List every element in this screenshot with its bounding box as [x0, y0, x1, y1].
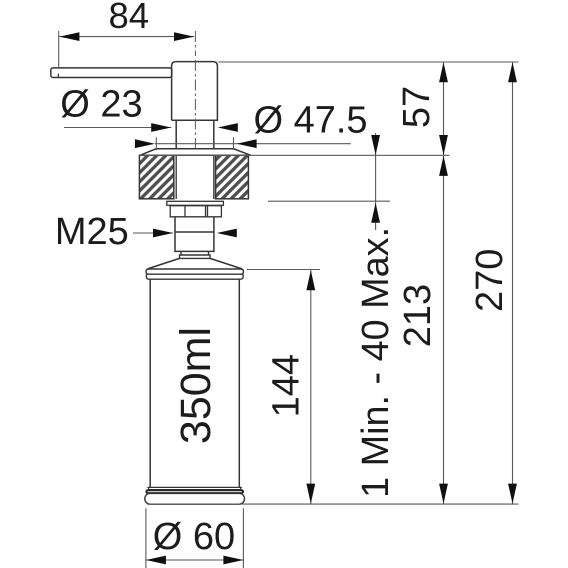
svg-text:144: 144	[265, 354, 307, 417]
dim 84 arrow right	[174, 32, 194, 41]
bottom reference line	[147, 503, 519, 505]
dim 213 line	[443, 156, 445, 504]
neck	[176, 120, 214, 149]
hex nut	[170, 206, 221, 217]
dim D60 arrow right	[223, 556, 243, 565]
svg-text:1 Min. - 40 Max.: 1 Min. - 40 Max.	[355, 227, 397, 498]
collar	[180, 251, 211, 258]
countertop slab right	[216, 155, 249, 199]
dim 144 arrow down	[306, 484, 315, 504]
bottle top rim	[146, 269, 244, 279]
svg-text:57: 57	[396, 86, 438, 128]
dim D60 line	[146, 559, 244, 561]
nut-top extension line	[268, 200, 390, 202]
svg-text:M25: M25	[55, 211, 129, 253]
bottle body	[150, 279, 239, 486]
svg-text:270: 270	[469, 249, 511, 312]
dim 84 arrow left	[59, 32, 79, 41]
dim M25 arrow right	[217, 229, 237, 238]
pump head	[172, 62, 218, 121]
dim 270 arrow down	[508, 484, 517, 504]
dim D60 witness left	[145, 508, 147, 568]
countertop slab left	[139, 155, 173, 199]
dim D60 arrow left	[146, 556, 166, 565]
dim 84 witness line	[58, 31, 60, 68]
svg-text:Ø 23: Ø 23	[60, 83, 142, 125]
dim M25 line	[133, 232, 173, 234]
svg-text:Ø 47.5: Ø 47.5	[253, 100, 367, 142]
dim M25 arrow left	[153, 229, 173, 238]
dim clamp arrow down	[371, 135, 380, 155]
dim D60 witness right	[242, 508, 244, 568]
dim D23 arrow left	[151, 123, 171, 132]
dim D47.5 arrow right	[237, 139, 257, 148]
bottle base	[149, 487, 241, 490]
svg-text:213: 213	[397, 284, 439, 347]
spout	[51, 68, 172, 78]
dim 57 line	[443, 62, 445, 155]
dim D47.5 arrow left	[135, 139, 155, 148]
dim clamp arrow up	[371, 203, 380, 223]
dim 213 arrow up	[439, 156, 448, 176]
top reference line	[218, 61, 518, 63]
dim 57 arrow up	[439, 62, 448, 82]
washer	[167, 201, 224, 205]
dim 213 arrow down	[439, 484, 448, 504]
counter surface line	[139, 154, 449, 156]
flange plate	[140, 149, 251, 156]
dim D47.5 line	[155, 143, 351, 145]
dim 270 line	[512, 62, 514, 504]
dim clamp line	[375, 133, 377, 230]
dim D47.5 tick right	[233, 137, 235, 150]
dim D23 arrow right	[218, 123, 238, 132]
svg-text:84: 84	[108, 0, 149, 36]
dim 144 arrow up	[306, 270, 315, 290]
threaded tube M25	[175, 217, 214, 252]
flare cone	[148, 258, 243, 269]
spout tip step	[57, 74, 59, 78]
centerline	[194, 31, 196, 149]
dim 57 arrow down	[439, 135, 448, 155]
dim 270 arrow up	[508, 62, 517, 82]
dim D23 line	[64, 127, 171, 129]
svg-text:350ml: 350ml	[172, 327, 220, 444]
dim 84 line	[59, 36, 194, 38]
svg-text:Ø 60: Ø 60	[153, 516, 235, 558]
bottle-rim extension line	[247, 269, 320, 271]
dim 144 line	[310, 270, 312, 504]
dim D47.5 tick left	[155, 137, 157, 150]
shaft through slab	[176, 155, 214, 199]
